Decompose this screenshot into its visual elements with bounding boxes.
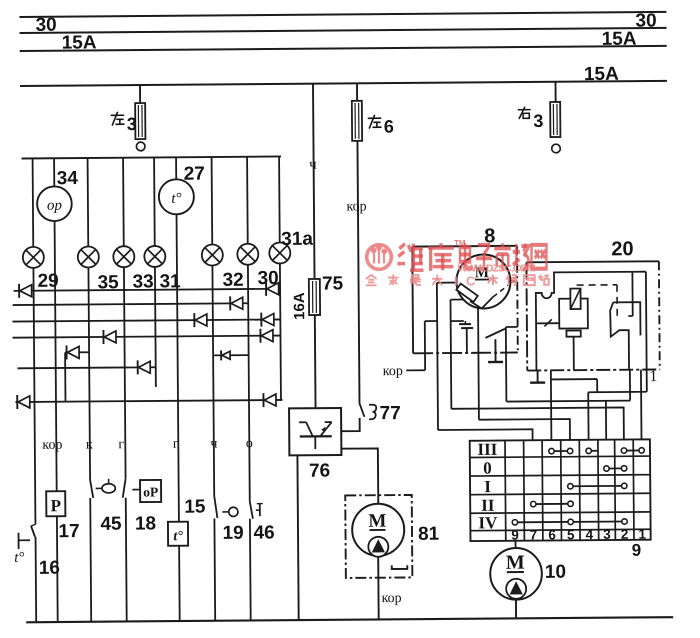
lamp 35 xyxy=(78,246,99,267)
svg-text:1: 1 xyxy=(649,368,657,385)
lamp 29 xyxy=(23,247,44,268)
wire to fuse Zuo3 xyxy=(139,85,141,104)
transistor in 76 xyxy=(300,435,332,437)
park bracket 81 xyxy=(392,565,408,569)
svg-text:45: 45 xyxy=(100,514,122,535)
svg-text:20: 20 xyxy=(611,238,633,260)
wire unit76 left drop to bus xyxy=(297,455,298,620)
wire lamp29 down xyxy=(33,268,35,524)
wire t27 down xyxy=(177,214,179,521)
switch 45 actuator xyxy=(102,484,115,493)
wire fuse75 to unit76 xyxy=(314,315,317,409)
wire motor81 to bus xyxy=(377,557,379,620)
lamp 33 xyxy=(113,246,134,267)
svg-text:15A: 15A xyxy=(62,32,97,53)
wire lamp block top bus xyxy=(22,156,281,158)
wire lamp32 down xyxy=(212,265,214,495)
ground unit8 xyxy=(488,339,503,362)
wire lamp31a down xyxy=(280,262,281,399)
diode on H1 right xyxy=(266,282,279,296)
svg-text:4: 4 xyxy=(586,527,594,542)
svg-text:III: III xyxy=(477,440,497,459)
wire feeder col2 xyxy=(451,407,624,441)
terminal circle fuse You3 xyxy=(552,144,561,153)
switch 46 contact xyxy=(250,502,253,519)
wire unit20 branch v xyxy=(596,379,598,392)
svg-text:3: 3 xyxy=(533,111,543,131)
svg-text:15A: 15A xyxy=(602,29,637,50)
wire feeder col3 drop xyxy=(605,401,607,440)
wire rail H2 xyxy=(13,303,248,305)
wire motor10 to bus xyxy=(515,600,517,619)
wire switch16 to bus xyxy=(35,537,38,622)
lamp 31 xyxy=(144,246,165,267)
svg-text:кор: кор xyxy=(346,199,366,214)
wire kor line from fuse Zuo6 xyxy=(357,141,359,403)
wire kor stub unit8 xyxy=(406,369,425,371)
svg-text:15: 15 xyxy=(184,497,206,518)
wire col4 drop xyxy=(587,392,589,440)
wire resistor drop unit20 xyxy=(573,337,575,370)
wire lamp30 down xyxy=(248,265,250,502)
svg-text:t°: t° xyxy=(14,550,24,566)
wire unit8 vert C xyxy=(449,300,452,409)
fuse Zuo3 xyxy=(135,103,145,139)
wire stub diode row A xyxy=(65,351,89,353)
wire dash to oP xyxy=(132,489,139,491)
wire lamp33 drop xyxy=(122,158,125,247)
wire unit8 inner h2 xyxy=(425,320,437,322)
brush plate unit8 xyxy=(456,284,477,302)
diode on H2 xyxy=(230,296,243,310)
bridge III 2-1 xyxy=(621,448,644,454)
svg-text:9: 9 xyxy=(511,528,519,543)
wire to fuse You3 xyxy=(554,82,556,103)
gauge op 34 xyxy=(37,186,72,221)
wire unit8 inner top xyxy=(437,282,457,284)
svg-text:2: 2 xyxy=(621,527,629,542)
wire bus 15A upper xyxy=(20,46,667,51)
wire circle to right edge unit8 xyxy=(508,280,517,282)
wire arm riser to unit20 xyxy=(629,370,631,401)
svg-text:op: op xyxy=(47,198,63,214)
wire lamp29 drop xyxy=(32,158,35,247)
wire lamp32 drop xyxy=(211,157,214,246)
label Zuo6 fuse xyxy=(368,115,381,128)
wire op34 drop xyxy=(53,158,55,187)
mech link dashed unit20 xyxy=(577,284,617,286)
label You3 fuse xyxy=(518,107,530,118)
wire rail H3 xyxy=(12,319,280,321)
wire rail H1 xyxy=(14,289,280,291)
svg-text:ч: ч xyxy=(309,157,317,173)
changeover contact unit20 xyxy=(613,302,640,336)
diode on H1 left xyxy=(19,284,32,298)
wire lamp33 down xyxy=(124,267,126,479)
diode on H6 left xyxy=(17,395,30,409)
wire unit8 inner h3 xyxy=(450,299,463,301)
wire lamp30 drop xyxy=(246,157,249,246)
svg-text:77: 77 xyxy=(380,403,401,424)
dashed link unit8 xyxy=(493,285,508,297)
svg-text:31a: 31a xyxy=(281,229,313,250)
svg-text:3: 3 xyxy=(127,114,137,134)
wire stub diode row B xyxy=(213,354,248,356)
svg-text:г: г xyxy=(118,437,124,452)
switch arm unit8 xyxy=(485,329,505,338)
svg-text:M: M xyxy=(368,511,386,532)
wire ch line xyxy=(313,84,315,280)
bridge II 7-5 xyxy=(531,501,574,507)
wire bus 15A lower xyxy=(20,81,667,86)
wire switch18 to bus xyxy=(125,498,128,622)
wire t27 drop xyxy=(175,157,177,179)
wire unit20 col6 drop xyxy=(550,370,553,440)
lamp 31a xyxy=(269,242,290,263)
unit 20 box xyxy=(526,261,658,262)
svg-text:17: 17 xyxy=(58,521,79,542)
switch 19 contact xyxy=(214,496,217,518)
resistor unit20 xyxy=(566,331,580,337)
svg-text:10: 10 xyxy=(545,562,566,583)
switch 16 contact xyxy=(31,524,35,526)
aux contact unit20 xyxy=(536,322,559,324)
svg-text:3: 3 xyxy=(603,527,611,542)
diode on H4 right xyxy=(260,329,273,343)
label Zuo3 fuse xyxy=(111,112,124,125)
switch 46 fixed xyxy=(256,509,259,511)
wire lamp31 drop xyxy=(153,157,156,246)
ground unit20 xyxy=(530,370,545,382)
wire unit20 branch h xyxy=(551,378,597,380)
wire lamp35 down xyxy=(88,267,90,480)
wire unit8 inner h4 xyxy=(451,320,464,322)
brush V unit8 xyxy=(470,297,493,309)
svg-text:76: 76 xyxy=(309,461,330,482)
bridge IV 9-5-2 xyxy=(512,519,627,525)
wire lamp31 down xyxy=(154,266,157,387)
relay coil unit20 xyxy=(559,299,588,329)
wire switch45 to bus xyxy=(89,498,92,622)
gauge t 27 xyxy=(159,179,194,214)
wire rail H5 xyxy=(18,367,156,368)
svg-text:30: 30 xyxy=(635,10,656,31)
unit 76 box xyxy=(289,408,341,455)
wire rail col4 xyxy=(588,391,647,393)
bridge III 4 xyxy=(591,450,598,452)
svg-text:oP: oP xyxy=(143,484,158,499)
svg-text:6: 6 xyxy=(548,527,556,542)
svg-text:34: 34 xyxy=(57,168,79,189)
svg-text:IV: IV xyxy=(478,513,498,532)
svg-text:I: I xyxy=(454,274,458,289)
svg-text:кор: кор xyxy=(383,364,403,379)
relay box t 15 xyxy=(168,522,188,546)
svg-text:C: C xyxy=(466,274,476,289)
wire unit8 vert A xyxy=(437,283,438,430)
svg-text:ч: ч xyxy=(210,436,217,451)
wire feeder col3 rail xyxy=(506,400,630,403)
svg-text:к: к xyxy=(86,437,93,452)
svg-text:15A: 15A xyxy=(584,64,619,85)
svg-text:75: 75 xyxy=(322,273,344,294)
svg-text:P: P xyxy=(51,496,62,515)
terminal circle fuse Zuo3 xyxy=(136,142,145,151)
wire unit8 vert F xyxy=(505,327,508,402)
svg-text:27: 27 xyxy=(184,164,205,185)
diode on stub A xyxy=(67,345,80,359)
wire lamp35 drop xyxy=(87,158,90,247)
diode on H4 left xyxy=(103,330,116,344)
unit 8 box xyxy=(411,247,414,354)
diode on stub B xyxy=(221,350,230,360)
wire rail H4 xyxy=(13,336,281,338)
wire switch77 to unit76 xyxy=(341,418,360,431)
svg-text:9: 9 xyxy=(632,541,642,560)
switch 77 fixed contact xyxy=(369,405,376,420)
wire unit8 vert B xyxy=(424,321,426,370)
svg-text:81: 81 xyxy=(418,524,440,545)
svg-text:M: M xyxy=(506,552,525,574)
unit 81 boundary box xyxy=(345,495,412,578)
svg-text:5: 5 xyxy=(567,527,575,542)
svg-text:кор: кор xyxy=(381,591,401,606)
label 16A xyxy=(291,292,308,320)
switch 18 contact xyxy=(123,479,126,498)
svg-text:г: г xyxy=(173,437,179,452)
svg-text:о: о xyxy=(246,436,253,451)
svg-text:16A: 16A xyxy=(291,292,308,320)
unit20 inner module outline xyxy=(536,272,647,371)
bridge III 6-5 xyxy=(549,448,573,454)
wire switch46 to bus xyxy=(249,519,252,621)
svg-text:7: 7 xyxy=(530,527,538,542)
wire ground bus bottom xyxy=(26,617,673,622)
coil slash box unit20 xyxy=(570,289,580,310)
diode on H5 xyxy=(138,360,151,374)
lamp 30 xyxy=(237,244,258,265)
svg-text:0: 0 xyxy=(483,459,492,478)
svg-text:I: I xyxy=(484,477,491,496)
watermark dzsc logo and text xyxy=(366,239,549,289)
svg-text:46: 46 xyxy=(253,523,274,544)
motor 10 xyxy=(490,548,542,600)
wire arm contact unit8 xyxy=(506,326,518,328)
svg-text:t°: t° xyxy=(171,191,181,207)
wire switch19 to bus xyxy=(213,518,216,620)
parking contact pads unit8 xyxy=(464,321,466,324)
wire to fuse Zuo6 xyxy=(356,83,358,101)
wire unit8 vert D xyxy=(477,308,480,419)
svg-text:18: 18 xyxy=(135,513,156,534)
wire lamp31a drop xyxy=(278,156,281,241)
svg-text:кор: кор xyxy=(42,438,62,453)
svg-text:19: 19 xyxy=(222,523,243,544)
wire col1 drop xyxy=(640,370,643,440)
wire op34 down xyxy=(55,221,57,491)
wire stub A drop xyxy=(64,352,66,401)
bridge I 5-2 xyxy=(568,483,627,489)
relay box oP 18 xyxy=(140,480,161,502)
hook contact unit20 xyxy=(631,272,633,316)
switch 45 contact xyxy=(90,480,93,498)
fuse You3 xyxy=(550,102,560,137)
wire P box to bus xyxy=(56,516,59,622)
wire unit76 to motor81 xyxy=(341,448,378,504)
svg-text:32: 32 xyxy=(222,270,243,291)
wire bus 30 lower xyxy=(20,28,667,33)
wire matrix to motor10 xyxy=(514,541,516,548)
diode on H3 mid xyxy=(194,313,207,327)
motor 81 xyxy=(352,504,404,557)
svg-text:1: 1 xyxy=(638,527,646,542)
fuse 75 16A xyxy=(309,279,320,315)
fuse Zuo6 xyxy=(352,101,362,141)
switch 19 actuator xyxy=(222,511,228,513)
relay box P 17 xyxy=(46,491,65,516)
bridge 0 3-2 xyxy=(604,466,627,472)
svg-text:6: 6 xyxy=(384,117,394,137)
wire rail H6 xyxy=(15,400,282,402)
switch matrix 9 grid xyxy=(470,439,651,541)
wire t box to bus xyxy=(178,546,181,621)
switch 77 contact xyxy=(359,403,364,417)
wire feeder col7 xyxy=(438,429,533,441)
svg-text:II: II xyxy=(481,496,495,515)
svg-text:30: 30 xyxy=(35,15,56,36)
svg-text:t°: t° xyxy=(173,529,183,544)
diode on H3 right xyxy=(261,313,274,327)
wire feeder col5 xyxy=(479,419,570,441)
wire bus 30 top xyxy=(19,12,666,17)
diode on H6 right xyxy=(263,393,276,407)
lamp 32 xyxy=(202,244,223,265)
motor circle unit8 xyxy=(456,254,510,308)
